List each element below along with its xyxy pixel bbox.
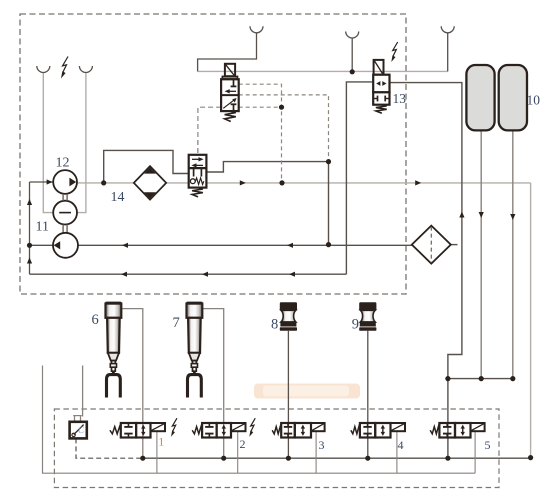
- wire bumper9 feed: [367, 331, 369, 458]
- node return tee: [326, 242, 331, 247]
- svg-text:6: 6: [92, 312, 99, 328]
- solenoid valve 3: [272, 423, 324, 452]
- wire main supply y183: [77, 180, 531, 185]
- wire solenoid bus y473.2: [43, 366, 476, 474]
- flash electric left: [61, 57, 68, 79]
- svg-text:12: 12: [56, 156, 70, 171]
- wire motor lead left: [43, 72, 53, 212]
- pressure regulator valve: [189, 155, 207, 197]
- motor: [53, 201, 77, 225]
- wire regulator out: [206, 162, 328, 172]
- wire valve13 out right: [390, 83, 465, 379]
- node tank bus 2: [479, 376, 484, 381]
- solenoid valve 5: [430, 423, 490, 452]
- label 11: [36, 220, 49, 235]
- svg-text:7: 7: [173, 315, 180, 331]
- svg-text:8: 8: [271, 317, 278, 333]
- solenoid valve 13: [373, 60, 389, 113]
- wire solenoid drop v4: [396, 431, 398, 473]
- svg-text:10: 10: [527, 93, 541, 108]
- wire shock7 feed: [202, 309, 223, 459]
- svg-text:5: 5: [485, 438, 491, 452]
- wire valve5 feed: [447, 379, 449, 458]
- wire return y274: [30, 272, 347, 277]
- air tank 10b: [499, 65, 527, 130]
- wire valve13 exhaust riser x346.4: [346, 82, 373, 274]
- wire shock6 feed: [121, 309, 142, 459]
- return filter: [412, 226, 451, 264]
- pilot dashed governor mid: [239, 95, 329, 162]
- node pilot-main: [279, 180, 284, 185]
- solenoid valve 4: [351, 423, 405, 452]
- pilot dashed governor bottom right: [239, 106, 282, 108]
- vent symbol left B: [79, 66, 92, 73]
- node compressor out: [101, 180, 106, 185]
- shaft coupling lower: [63, 225, 67, 233]
- svg-text:C: C: [78, 425, 85, 435]
- solenoid valve 1: [110, 418, 177, 448]
- vacuum pump 11: [53, 233, 78, 258]
- bump stop 9: [352, 302, 377, 332]
- node regulator out tee: [326, 159, 331, 164]
- wire solenoid drop v2: [237, 431, 239, 473]
- node vent4: [350, 69, 355, 74]
- label 14: [111, 190, 125, 205]
- label 12: [56, 156, 70, 171]
- wire return y245: [78, 243, 412, 248]
- vent symbol top B: [346, 32, 359, 39]
- wire motor lead right: [77, 72, 86, 212]
- node tank bus 1: [445, 376, 450, 381]
- vent symbol top C: [441, 26, 454, 33]
- node v5 out: [445, 456, 450, 461]
- wire solenoid drop v1: [156, 431, 158, 473]
- pilot dashed governor bottom left: [198, 107, 221, 155]
- node v2 out: [221, 456, 226, 461]
- pilot dashed pressure switch: [76, 438, 143, 458]
- node pilot cross: [279, 105, 284, 110]
- wire electric bus y71: [198, 70, 448, 72]
- wire tank bus y378.6: [448, 378, 513, 380]
- shock absorber 7: [173, 302, 203, 398]
- air dryer 14: [134, 166, 166, 200]
- node v3 out: [286, 456, 291, 461]
- svg-text:14: 14: [111, 190, 125, 205]
- wire tank2 drop x512.8: [510, 130, 515, 378]
- shaft coupling upper: [63, 194, 67, 201]
- enclosure dashed box (pneumatic unit): [20, 14, 406, 294]
- valve manifold dashed box: [54, 409, 499, 488]
- svg-text:11: 11: [36, 220, 49, 235]
- wire pressure-switch feed x82.6: [82, 366, 84, 417]
- label 13: [393, 91, 407, 106]
- node v1 out: [140, 456, 145, 461]
- wire vent4 stem: [351, 38, 353, 72]
- air tank 10a: [466, 65, 494, 130]
- wire tank1 drop x481.2: [479, 130, 484, 378]
- svg-text:9: 9: [352, 317, 359, 333]
- node v4 out: [365, 456, 370, 461]
- svg-text:3: 3: [319, 438, 325, 452]
- wire suction riser x29.5: [27, 182, 32, 274]
- svg-text:2: 2: [240, 437, 246, 451]
- pilot dashed governor top: [239, 84, 282, 183]
- vent symbol left A: [37, 66, 50, 73]
- label 10: [527, 93, 541, 108]
- bump stop 8: [271, 302, 297, 332]
- node bus right: [528, 455, 533, 460]
- shock absorber 6: [92, 302, 122, 398]
- wire compressor inlet: [30, 179, 54, 184]
- governor solenoid valve: [221, 64, 239, 122]
- solenoid valve 2: [192, 418, 255, 451]
- vent symbol top A: [250, 26, 263, 33]
- wire solenoid drop v3: [315, 431, 317, 473]
- flash valve13: [391, 42, 397, 62]
- node tank bus 3: [510, 376, 515, 381]
- wire bumper8 feed: [287, 331, 289, 458]
- wire drop x328.5: [328, 162, 330, 245]
- pilot dash-dot regulator: [197, 140, 199, 155]
- wire return filter stub: [451, 244, 458, 246]
- compressor 12: [53, 170, 77, 194]
- svg-text:13: 13: [393, 91, 407, 106]
- svg-text:1: 1: [158, 435, 164, 449]
- wire vent3 stem + L to bus: [198, 33, 257, 72]
- svg-text:4: 4: [398, 438, 404, 452]
- wire solenoid drop v5: [474, 431, 476, 473]
- pressure switch: [70, 416, 87, 439]
- wire supply drop right x530.6: [530, 183, 532, 458]
- wire pump11 inlet: [30, 244, 55, 246]
- wire vent5 stem: [447, 33, 449, 72]
- wire dryer bypass: [104, 150, 189, 183]
- wire watermark band: [254, 384, 360, 399]
- node suction tee: [27, 243, 32, 248]
- wire delivery bus y458.2: [143, 457, 531, 459]
